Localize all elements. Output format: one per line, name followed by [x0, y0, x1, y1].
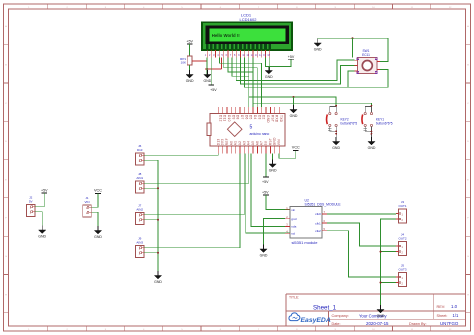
ground below nano right: [290, 105, 298, 118]
wire J6 pin2 to gnd bus: [144, 160, 158, 275]
ground below KEY1: [368, 137, 376, 150]
wire encoder gnd drop: [317, 38, 319, 43]
switch KEY2 button6*6*5: [327, 105, 358, 142]
svg-text:12: 12: [251, 53, 254, 57]
svg-text:3V3: 3V3: [221, 139, 225, 145]
svg-text:LCD1602: LCD1602: [240, 17, 258, 22]
svg-text:D9: D9: [231, 115, 235, 120]
connector J3 OUT1: [396, 200, 407, 223]
svg-text:TITLE:: TITLE:: [289, 295, 299, 299]
power +5V right of LCD: [288, 55, 295, 59]
svg-text:GND: GND: [266, 115, 270, 123]
wire +5V to si5351 vin: [266, 195, 290, 210]
resistor RP1 10K: [180, 56, 192, 65]
wire J7 pin2 to gnd bus: [144, 219, 158, 221]
svg-text:vin: vin: [291, 208, 295, 212]
connector J7 AIN2: [136, 204, 145, 225]
wire gnd bus to J4 pin2: [381, 251, 396, 253]
svg-text:VIN: VIN: [84, 200, 89, 204]
ground below output bus: [377, 305, 385, 318]
connector J6 D13: [136, 144, 145, 165]
wire LCD pin4 to nano D2: [220, 58, 262, 108]
svg-text:sda: sda: [291, 225, 296, 229]
svg-text:Date:: Date:: [332, 322, 341, 326]
svg-text:D6: D6: [244, 115, 248, 120]
power VCC above J1: [94, 189, 102, 194]
svg-text:OUT3: OUT3: [398, 267, 406, 271]
svg-text:RXD: RXD: [275, 115, 279, 123]
connector J4 OUT2: [396, 233, 407, 256]
ground left of encoder: [314, 39, 322, 52]
svg-text:GND: GND: [377, 314, 385, 318]
junction gnd bus J4: [380, 251, 382, 253]
connector J5 OUT3: [396, 264, 407, 287]
arduino nano bottom pin names: [216, 137, 281, 145]
svg-text:G: G: [467, 256, 469, 258]
svg-text:Company:: Company:: [332, 314, 349, 318]
power +5V below nano: [262, 177, 269, 184]
wire nano VIN to VCC: [279, 151, 296, 159]
wire LCD pin2 to +5V: [210, 58, 212, 86]
EasyEDA logo: [289, 313, 331, 324]
svg-text:GND: GND: [265, 75, 273, 79]
arduino nano top pin names: [218, 115, 283, 123]
wire nano to KEY1: [253, 58, 372, 106]
svg-text:Sheet_1: Sheet_1: [313, 304, 337, 311]
svg-text:GND: GND: [186, 79, 194, 83]
arduino nano top pins: [218, 107, 279, 114]
svg-text:GND: GND: [273, 137, 277, 145]
wire nano to KEY2: [249, 58, 336, 106]
wire si5351 gnd to ground: [264, 219, 286, 249]
wire encoder ground net: [318, 38, 388, 61]
svg-text:+5V: +5V: [210, 88, 217, 92]
wire encoder B stub: [348, 71, 355, 87]
svg-text:SI5351_DDS_MODULE: SI5351_DDS_MODULE: [305, 203, 342, 207]
svg-text:gnd: gnd: [291, 217, 296, 221]
svg-text:+5V: +5V: [288, 55, 295, 59]
svg-text:Sheet:: Sheet:: [437, 314, 448, 318]
svg-text:5: 5: [250, 125, 253, 131]
wire nano A4 to si5351 scl: [246, 153, 290, 233]
svg-text:+5V: +5V: [262, 180, 269, 184]
svg-text:D12: D12: [218, 115, 222, 122]
wire si5351 clk0 to J3: [327, 213, 396, 215]
svg-text:GND: GND: [94, 235, 102, 239]
svg-text:UN7FGO: UN7FGO: [440, 321, 459, 326]
svg-text:RST: RST: [270, 115, 274, 122]
svg-text:VCC: VCC: [292, 146, 300, 150]
wire nano to encoder B loop: [245, 58, 388, 88]
svg-text:clk1: clk1: [315, 221, 321, 225]
svg-text:1/1: 1/1: [453, 313, 459, 318]
wire nano to encoder A: [236, 58, 354, 81]
svg-text:EC11: EC11: [362, 53, 370, 57]
ground below nano: [269, 160, 277, 173]
wire J6 pin1 to nano D13: [144, 153, 218, 155]
junction J8 gnd: [157, 187, 159, 189]
junction on encoder ground net: [352, 37, 354, 39]
svg-text:GND: GND: [204, 79, 212, 83]
svg-text:TXD: TXD: [279, 115, 283, 123]
wire si5351 clk1 to J4: [327, 223, 396, 246]
svg-text:G: G: [5, 256, 7, 258]
svg-text:D13: D13: [137, 148, 143, 152]
svg-text:OUT2: OUT2: [398, 236, 406, 240]
svg-text:GND: GND: [269, 168, 277, 172]
svg-text:2020-07-15: 2020-07-15: [366, 321, 389, 326]
svg-text:Hello World !!: Hello World !!: [212, 33, 240, 38]
svg-text:+5V: +5V: [262, 191, 269, 195]
power +5V above RP1: [186, 40, 193, 45]
wire nano 5V pin to +5V flag: [265, 153, 267, 177]
svg-text:+5V: +5V: [41, 189, 48, 193]
ground below KEY2: [332, 137, 340, 150]
wire J2 pin1 to +5V: [35, 193, 44, 207]
svg-text:AIN1: AIN1: [136, 176, 143, 180]
svg-text:GND: GND: [260, 253, 268, 257]
power +5V below LCD pin2: [209, 85, 218, 92]
svg-text:GND: GND: [368, 146, 376, 150]
svg-text:button6*6*5: button6*6*5: [376, 121, 393, 125]
switch KEY1 button6*6*5: [362, 105, 393, 142]
svg-text:D3: D3: [257, 115, 261, 120]
wire J8 pin2 to gnd bus: [144, 187, 158, 189]
connector J8 AIN1: [136, 172, 145, 193]
svg-text:D7: D7: [240, 115, 244, 120]
power +5V feeding si5351: [262, 191, 269, 196]
LCD pin pads: [206, 44, 271, 49]
wire nano to encoder C: [240, 58, 354, 85]
wire LCD pin15 to +5V: [265, 58, 291, 67]
LCD pins and pin numbers: [207, 50, 270, 57]
power VCC right of nano: [292, 146, 300, 151]
svg-text:1.0: 1.0: [451, 304, 458, 309]
svg-text:A0: A0: [229, 141, 233, 145]
wire nano GND pin down: [272, 153, 274, 164]
svg-text:GND: GND: [332, 146, 340, 150]
wire J9 pin2 to gnd bus: [144, 252, 158, 254]
wire output ground bus: [381, 219, 396, 310]
wire J9 pin1 to nano A2: [144, 153, 240, 247]
svg-text:AIN2: AIN2: [136, 208, 143, 212]
svg-text:EasyEDA: EasyEDA: [301, 317, 331, 324]
junction KEY2 net: [293, 96, 295, 98]
connector J9 AIN3: [136, 237, 145, 258]
svg-text:clk2: clk2: [315, 229, 321, 233]
connector J2 5V: [27, 196, 36, 217]
svg-text:GND: GND: [314, 47, 322, 51]
junction J7 gnd: [157, 219, 159, 221]
ground below RP1: [186, 70, 194, 83]
junction gnd bus J5: [380, 282, 382, 284]
svg-text:clk0: clk0: [315, 212, 321, 216]
wire si5351 clk2 to J5: [327, 231, 396, 277]
wire RP1 wiper to LCD VO: [192, 58, 222, 70]
svg-text:GND: GND: [38, 234, 46, 238]
title block: [286, 294, 466, 326]
svg-text:13: 13: [255, 53, 258, 57]
svg-text:D8: D8: [236, 115, 240, 120]
wire J2 pin2 to GND: [35, 212, 42, 230]
arduino nano bottom pins: [218, 146, 279, 153]
ground below LCD pin16: [265, 66, 273, 79]
si5351 module U2: [285, 198, 341, 245]
wire gnd bus to J5 pin2: [381, 282, 396, 284]
svg-text:D4: D4: [253, 115, 257, 120]
svg-text:11: 11: [246, 53, 249, 57]
ground below J2: [38, 226, 46, 239]
svg-text:10: 10: [242, 53, 245, 57]
rotary encoder SW1 EC11: [355, 49, 381, 74]
svg-text:D5: D5: [249, 115, 253, 120]
ground below si5351: [260, 245, 268, 258]
wire RP1 to GND: [189, 65, 191, 75]
junction on LCD pin1 net: [206, 68, 208, 70]
svg-text:D11: D11: [223, 115, 227, 121]
svg-text:10K: 10K: [181, 61, 186, 65]
power +5V above J2: [41, 189, 48, 194]
wire LCD pin16 to ground: [269, 58, 271, 71]
svg-text:si5351 module: si5351 module: [292, 240, 319, 245]
wire nano A5 to si5351 sda: [251, 153, 290, 226]
svg-text:arduino nano: arduino nano: [250, 132, 270, 136]
svg-text:GND: GND: [290, 114, 298, 118]
wire junction to encoder pad: [352, 38, 354, 57]
svg-text:Drawn By:: Drawn By:: [409, 322, 427, 326]
junction J9 gnd: [157, 252, 159, 254]
svg-text:scl: scl: [291, 231, 295, 235]
ground below LCD pin1: [204, 70, 212, 83]
arduino nano U1 body: [207, 114, 285, 147]
wire +5V to RP1: [189, 44, 191, 56]
wire J7 pin1 to nano A3: [144, 153, 244, 214]
LCD LCD1 labels: [240, 13, 258, 23]
svg-text:AIN3: AIN3: [136, 241, 143, 245]
wire LCD pin1 to ground: [206, 58, 208, 75]
svg-text:15: 15: [263, 53, 266, 57]
wire J8 pin1 to nano A4: [144, 153, 249, 183]
ground below gnd bus: [154, 271, 162, 284]
svg-text:VIN: VIN: [277, 139, 281, 146]
svg-text:16: 16: [267, 53, 270, 57]
ground below J1: [94, 226, 102, 239]
svg-text:5V: 5V: [264, 140, 268, 145]
wire J1 pin1 to VCC: [91, 194, 98, 208]
connector J1 VIN: [83, 196, 92, 217]
svg-text:GND: GND: [154, 280, 162, 284]
svg-text:button6*6*5: button6*6*5: [341, 121, 358, 125]
svg-text:D2: D2: [262, 115, 266, 120]
svg-text:14: 14: [259, 53, 262, 57]
svg-text:A3: A3: [242, 141, 246, 145]
wire LCD pin5 to nano D3: [224, 58, 257, 108]
LCD LCD1 body: [202, 22, 292, 50]
svg-text:5V: 5V: [29, 200, 33, 204]
svg-text:A5: A5: [251, 141, 255, 145]
svg-text:+5V: +5V: [186, 40, 193, 44]
wire KEY2 net gnd drop: [293, 97, 295, 110]
wire LCD pin7 to nano D5: [232, 58, 249, 108]
svg-text:REV:: REV:: [437, 305, 446, 309]
wire J1 pin2 to GND: [91, 212, 98, 230]
wire LCD pin6 to nano D4: [228, 58, 253, 108]
svg-text:D10: D10: [227, 115, 231, 122]
svg-text:OUT1: OUT1: [398, 204, 406, 208]
svg-text:VCC: VCC: [94, 189, 102, 193]
